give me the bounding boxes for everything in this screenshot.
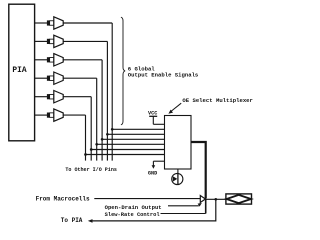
svg-text:GND: GND: [148, 171, 157, 177]
svg-text:Output Enable Signals: Output Enable Signals: [128, 72, 199, 79]
svg-text:PIA: PIA: [12, 66, 26, 75]
svg-text:To Other I/O Pins: To Other I/O Pins: [65, 167, 117, 173]
svg-text:From Macrocells: From Macrocells: [36, 196, 90, 203]
svg-text:Open-Drain Output: Open-Drain Output: [105, 204, 162, 211]
svg-text:Slew-Rate Control: Slew-Rate Control: [105, 212, 161, 218]
svg-text:To PIA: To PIA: [61, 217, 83, 224]
svg-text:OE Select Multiplexer: OE Select Multiplexer: [182, 97, 253, 104]
